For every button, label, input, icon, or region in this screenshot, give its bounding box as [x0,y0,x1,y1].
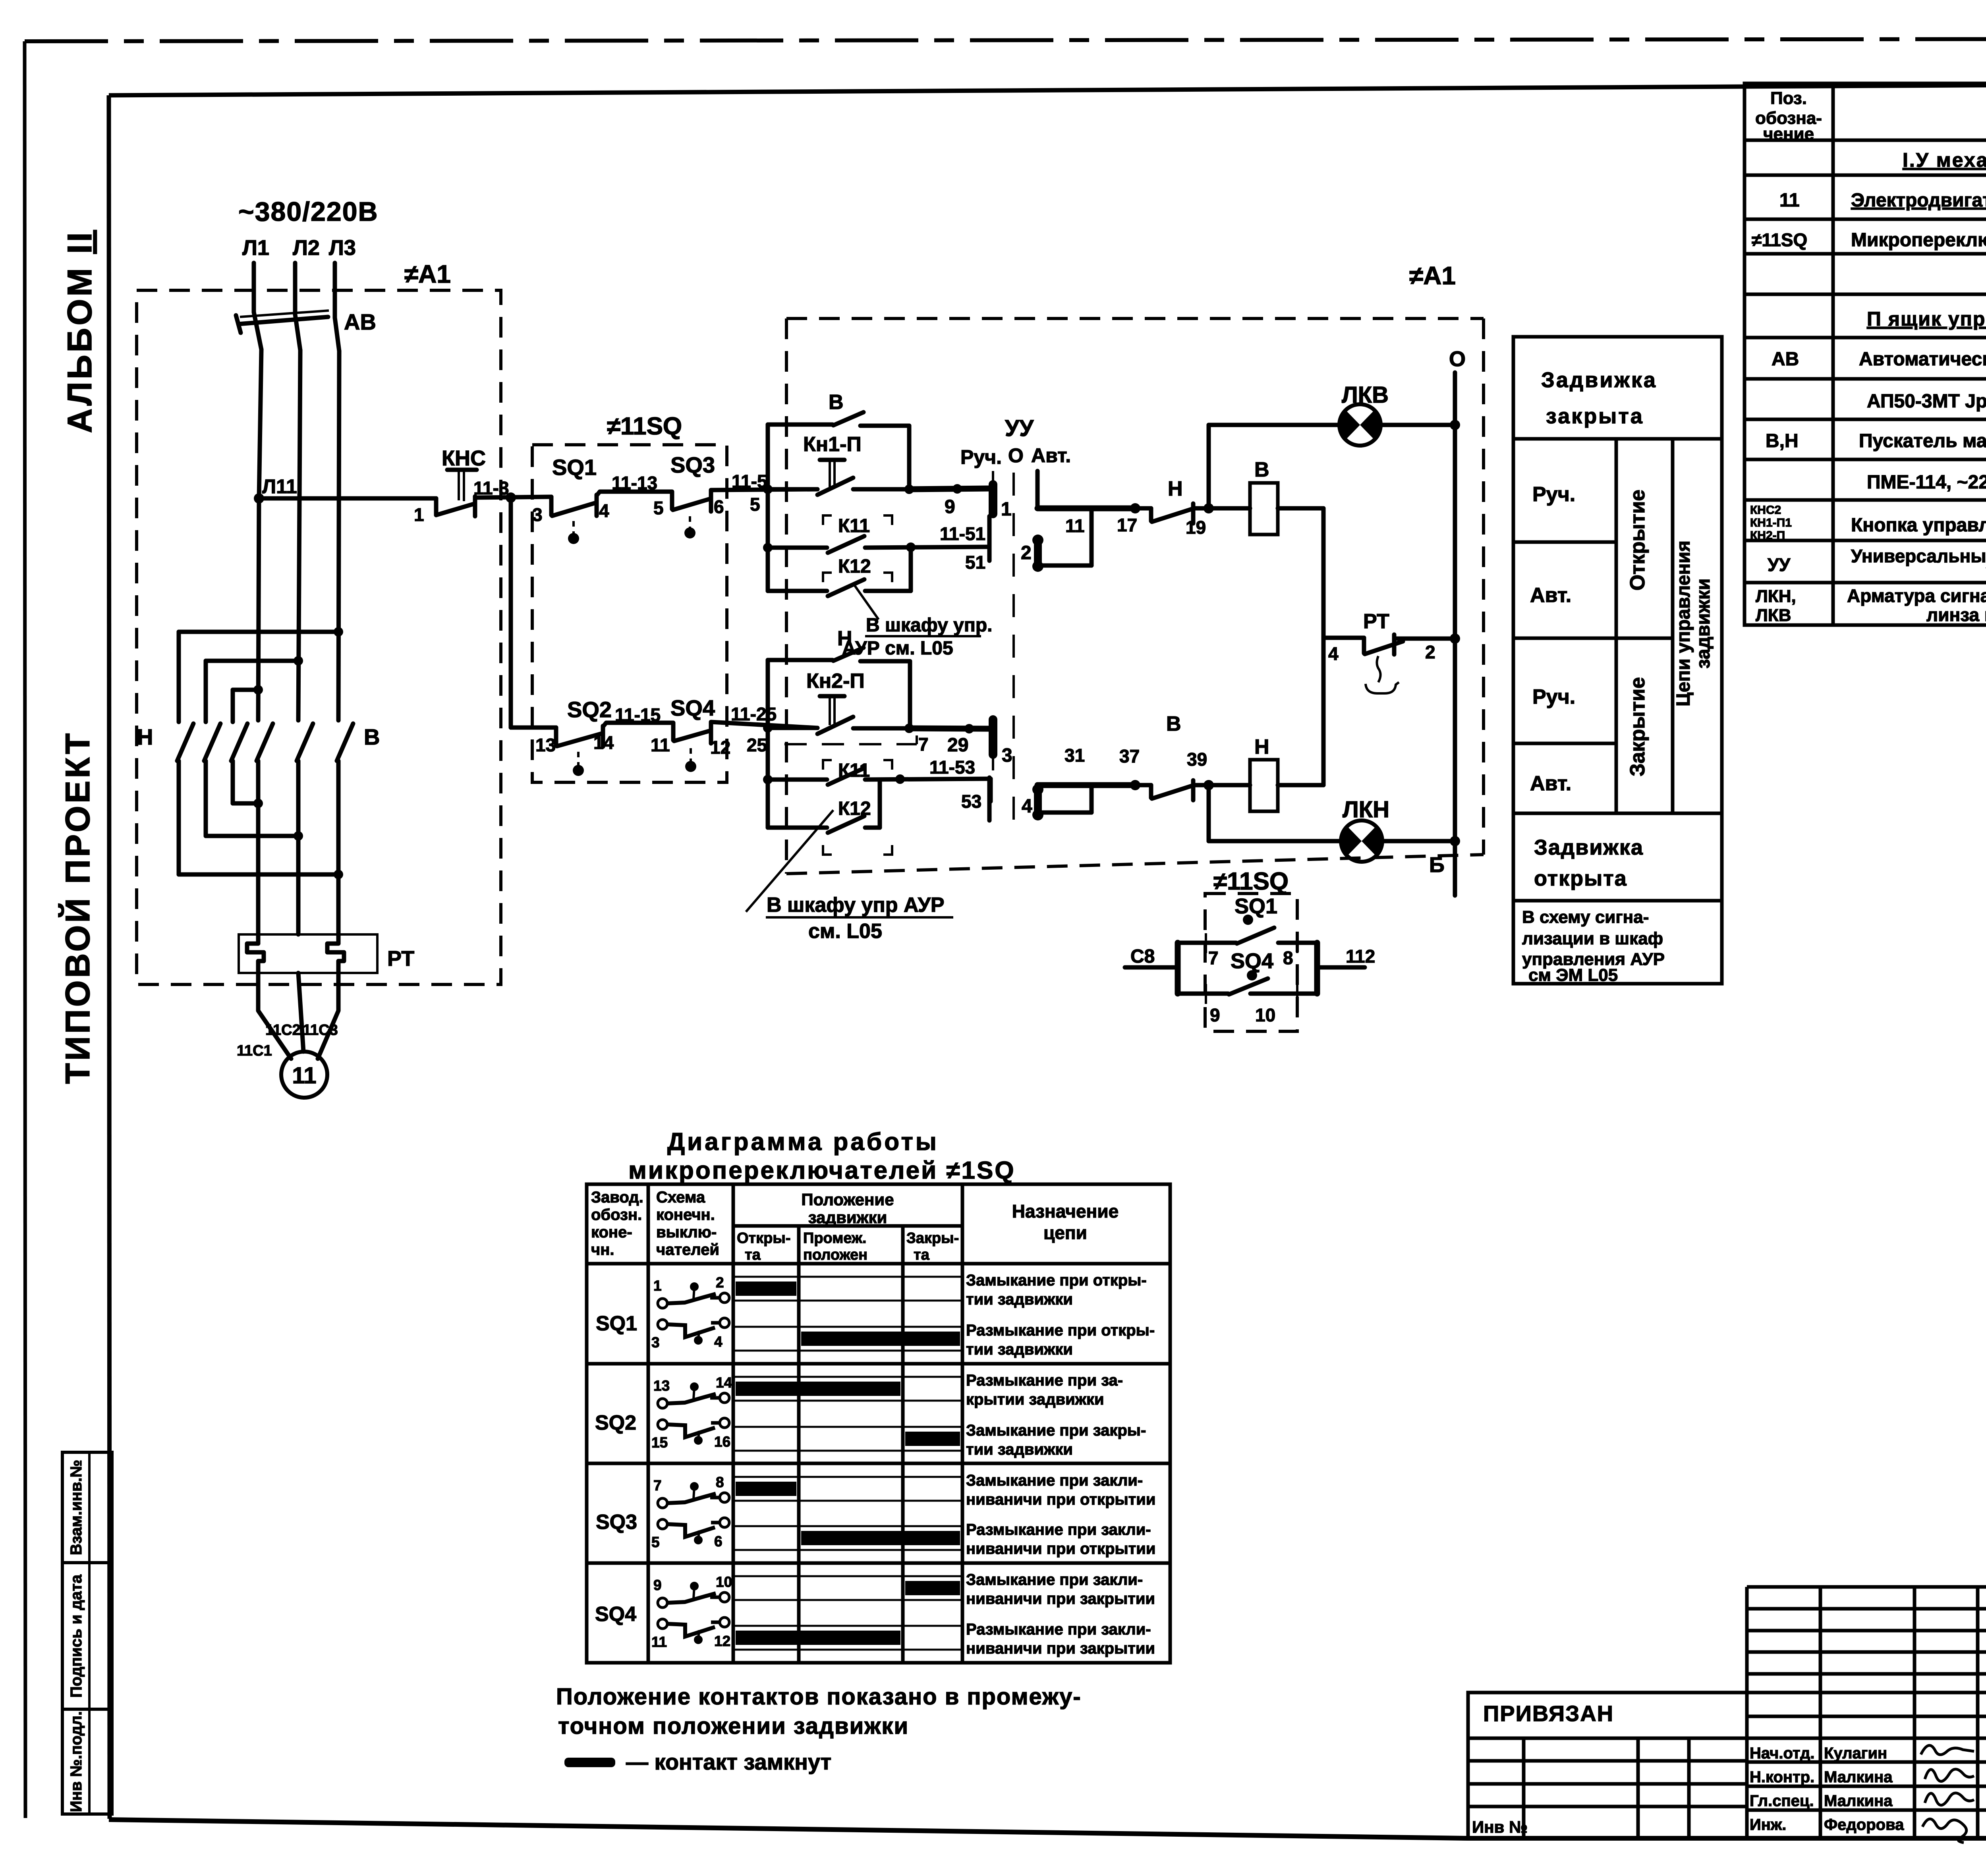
svg-text:37: 37 [1119,746,1140,766]
svg-text:SQ3: SQ3 [596,1511,637,1534]
УУ line Авт upper [1037,471,1140,513]
svg-text:тии задвижки: тии задвижки [966,1291,1073,1308]
svg-text:КНС2: КНС2 [1750,504,1781,517]
РТ release hook [1366,656,1399,693]
margin box Подпись и дата [62,1563,112,1709]
column dividers [1616,439,1673,813]
svg-text:12: 12 [714,1633,730,1649]
diagram column lines [648,1184,962,1663]
svg-text:11: 11 [1065,515,1085,536]
УУ contact bar 3 [993,720,1012,770]
motor 11 [281,1052,327,1098]
svg-text:≠А1: ≠А1 [404,260,451,288]
SQ2 contact sketch top [653,1374,732,1408]
wire SQ1 to SQ3 raised [597,492,672,509]
svg-text:11С2: 11С2 [265,1022,301,1038]
phase stub Л3 [333,263,337,318]
svg-text:Арматура сигнальная АЕ3211У: Арматура сигнальная АЕ3211У3 [1847,585,1986,606]
stop button КНС [436,470,477,516]
border dash-dot top line [25,39,1986,41]
svg-text:4: 4 [1022,796,1032,817]
limit switch SQ3 [673,491,711,538]
cell Авт close [1530,772,1571,795]
svg-text:Б: Б [1429,853,1445,877]
svg-text:Н: Н [1168,477,1183,500]
svg-text:10: 10 [1255,1005,1275,1025]
svg-text:Схема: Схема [656,1189,705,1206]
SQ3 contact sketch bottom [651,1518,729,1550]
wire 2 to Н contact row [1038,508,1092,566]
parts column lines [1833,83,1986,625]
svg-text:РТ: РТ [1363,610,1389,633]
circuit purpose text row 3 [966,1372,1123,1408]
svg-text:К11: К11 [838,760,870,781]
svg-text:SQ1: SQ1 [596,1312,637,1335]
svg-text:2: 2 [1021,542,1032,564]
cell Авт open [1513,584,1673,638]
svg-text:ЛКВ: ЛКВ [1756,606,1791,625]
button КН1-П contact [768,478,914,495]
svg-text:≠11SQ: ≠11SQ [1752,230,1807,250]
header Назначение цепи [1012,1201,1119,1243]
svg-text:см. L05: см. L05 [808,920,882,943]
margin box Инв №.подл. [62,1709,112,1814]
svg-text:открыта: открыта [1534,867,1627,890]
svg-text:ниваничи при закрытии: ниваничи при закрытии [966,1640,1155,1657]
svg-text:Малкина: Малкина [1824,1768,1893,1786]
svg-text:Нач.отд.: Нач.отд. [1750,1745,1814,1762]
svg-text:11: 11 [292,1063,316,1089]
coils common vertical [1321,508,1326,785]
svg-text:≠11SQ: ≠11SQ [1213,868,1289,895]
svg-text:Взам.инв.№: Взам.инв.№ [68,1460,85,1555]
svg-text:К11: К11 [838,515,870,537]
legend closed contact [564,1749,831,1774]
svg-text:16: 16 [714,1434,730,1450]
thermal contact РТ [1323,633,1460,654]
svg-text:Подпись и дата: Подпись и дата [68,1574,85,1698]
svg-text:АЛЬБОМ II: АЛЬБОМ II [61,230,99,433]
row арматура сигнальная [1756,585,1986,625]
SQ3 contact sketch top [653,1474,729,1508]
svg-text:Кн1-П: Кн1-П [803,433,862,456]
svg-text:Замыкание при закры-: Замыкание при закры- [966,1422,1146,1439]
svg-text:2: 2 [1425,642,1435,662]
motor leads [258,973,338,1059]
svg-text:12: 12 [710,737,730,758]
button КН2-П contact [768,717,914,734]
circuit breaker АВ poles [236,311,339,351]
circuit purpose text row 4 [966,1422,1146,1458]
svg-text:положен: положен [803,1247,867,1263]
УУ line Авт lower [1037,780,1140,790]
svg-text:РТ: РТ [387,947,414,971]
thermal relay РТ box [239,934,377,973]
svg-text:Кнопка управления КЕ 011У3: Кнопка управления КЕ 011У3 [1851,515,1986,536]
contact state strip row 5 [733,1477,962,1501]
svg-text:І.У механизма: І.У механизма [1903,149,1986,171]
circuit purpose text row 1 [966,1272,1147,1308]
svg-text:Автоматический выключатель: Автоматический выключатель [1859,349,1986,370]
diagram header lines [587,1226,1170,1264]
wire to УУ contact 3 [909,724,991,733]
svg-text:Кн2-П: Кн2-П [806,670,865,693]
svg-text:АВ: АВ [1772,349,1799,370]
svg-text:SQ1: SQ1 [1234,894,1277,918]
svg-text:11: 11 [651,1634,667,1650]
svg-text:конечн.: конечн. [656,1206,715,1224]
svg-text:П ящик управления ЯУ11 (ЯУ541: П ящик управления ЯУ11 (ЯУ5413-03 А 2В) [1867,308,1986,330]
valve state table frame [1513,337,1722,984]
svg-text:ниваничи при открытии: ниваничи при открытии [966,1491,1155,1508]
lamp ЛКВ branch [1209,420,1460,508]
svg-text:Замыкание при закли-: Замыкание при закли- [966,1571,1143,1588]
row АВ автоматический выключатель [1772,349,1986,370]
circuit purpose text row 6 [966,1521,1155,1558]
svg-text:Задвижка: Задвижка [1541,368,1657,392]
svg-text:7: 7 [653,1477,662,1494]
svg-text:Н: Н [1254,735,1269,759]
svg-text:чн.: чн. [591,1241,614,1258]
svg-text:Микропереключатель: Микропереключатель [1851,230,1986,251]
row ПМЕ-114 [1867,472,1986,493]
svg-text:Положение контактов показа: Положение контактов показано в промежу- [556,1684,1082,1710]
lamp ЛКН [1341,820,1382,862]
header cell Задвижка закрыта [1513,368,1722,439]
SQ4 contact sketch top [653,1574,732,1608]
svg-text:В схему сигна-: В схему сигна- [1522,907,1649,927]
contact state strip row 4 [733,1427,962,1451]
note В ШКАФУ УПР АУР lower [746,810,953,943]
svg-text:В: В [364,724,380,749]
svg-text:УУ: УУ [1005,415,1034,441]
header Положение задвижки [801,1190,894,1227]
svg-text:В: В [1254,458,1269,481]
interlock contact Н open-circuit [1135,503,1214,523]
wire Л11 to КНС [259,496,436,501]
svg-text:Поз.: Поз. [1770,89,1807,108]
svg-text:В шкафу упр.: В шкафу упр. [866,615,992,636]
header Завод обозн конечн [591,1189,643,1258]
row ВН пускатель [1766,430,1986,452]
svg-text:SQ4: SQ4 [1231,949,1273,973]
svg-text:14: 14 [593,732,614,753]
svg-text:Назначение: Назначение [1012,1201,1119,1222]
svg-text:АВ: АВ [344,309,376,334]
svg-text:14: 14 [716,1374,732,1391]
header Поз обозначение [1755,89,1822,144]
svg-text:Закрытие: Закрытие [1626,677,1649,776]
limit switch SQ2 [556,726,603,776]
contact state strip row 7 [733,1576,962,1600]
cell Руч close [1513,685,1616,743]
svg-text:7: 7 [1208,948,1219,968]
svg-text:Л1: Л1 [242,236,269,260]
svg-text:чателей: чателей [656,1241,719,1258]
svg-text:цепи: цепи [1043,1222,1087,1243]
seal-in contact Н [768,648,910,728]
junction column upper group [763,425,773,591]
reversing loops bottom wires [179,799,343,879]
seal-in contact В [768,412,909,489]
phase wire Л3 vertical [338,351,339,720]
svg-text:SQ4: SQ4 [595,1603,636,1626]
contactor coil В [1209,483,1323,535]
svg-text:Откры-: Откры- [737,1230,791,1247]
SQ4 contact 9-10 [1178,979,1317,1004]
SQ4 contact sketch bottom [651,1617,730,1650]
svg-text:≠11SQ: ≠11SQ [607,413,682,440]
svg-text:19: 19 [1186,517,1206,538]
svg-text:В: В [829,391,844,414]
svg-text:11-53: 11-53 [929,757,975,778]
circuit purpose text row 7 [966,1571,1155,1608]
branch tap to closing row [506,492,556,728]
svg-text:39: 39 [1187,749,1207,770]
circuit purpose text row 5 [966,1472,1155,1508]
SQ2 contact sketch bottom [651,1418,730,1451]
svg-text:Цепи управления: Цепи управления [1673,540,1694,706]
diagram group row lines [587,1364,1170,1563]
УУ position dashed line О [1012,473,1015,832]
staff row Н.контр [1750,1768,1974,1786]
svg-text:Инв №.подл.: Инв №.подл. [68,1711,85,1812]
svg-text:Л2: Л2 [293,236,320,260]
SQ1 contact 7-8 [1178,928,1317,953]
contact state strip row 6 [733,1526,962,1550]
svg-text:АП50-3МТ Јрасц.· 1,6А: АП50-3МТ Јрасц.· 1,6А [1867,391,1986,412]
cell Руч open [1513,483,1616,542]
svg-text:Кулагин: Кулагин [1824,1745,1887,1762]
parallel block right bus [1314,943,1320,994]
SQ1 actuator dot [1243,915,1253,925]
contact К12 upper loop [768,548,911,596]
wire 112 [1317,946,1375,967]
svg-text:29: 29 [947,735,968,756]
wire to УУ contact 1 [909,484,990,494]
svg-text:8: 8 [1283,948,1293,968]
dashed enclosure A1 left (motor cabinet) [137,290,501,984]
svg-text:SQ3: SQ3 [670,452,715,477]
svg-text:Л3: Л3 [329,236,356,260]
dashed enclosure А1 control box [786,318,1484,874]
svg-text:SQ2: SQ2 [567,697,612,722]
phase stub Л1 [252,263,256,312]
lamp ЛКН branch [1209,785,1460,846]
phase stub Л2 [293,263,298,315]
svg-text:11С3: 11С3 [303,1022,338,1038]
svg-text:Замыкание при откры-: Замыкание при откры- [966,1272,1147,1289]
svg-text:Авт.: Авт. [1530,584,1571,607]
svg-text:10: 10 [716,1574,732,1590]
phase verticals below contacts [258,761,338,934]
svg-text:Размыкание при за-: Размыкание при за- [966,1372,1123,1389]
svg-text:К12: К12 [838,556,871,577]
svg-text:9: 9 [1210,1005,1220,1025]
circuit purpose text row 8 [966,1621,1155,1657]
svg-text:Н.контр.: Н.контр. [1750,1768,1814,1786]
subheader Закрыта [906,1230,959,1263]
svg-text:Закры-: Закры- [906,1230,959,1247]
svg-text:микропереключателей ≠1SQ: микропереключателей ≠1SQ [628,1157,1016,1184]
svg-text:ЛКН,: ЛКН, [1756,587,1796,606]
terminal bar line 53 [987,778,992,820]
dashed enclosure 11SQ upper [532,445,727,782]
contact К11 lower [768,760,991,801]
svg-text:крытии задвижки: крытии задвижки [966,1391,1104,1408]
svg-text:9: 9 [945,496,955,517]
svg-text:О: О [1449,347,1466,371]
bottom border line [109,1820,1986,1838]
svg-text:Руч.: Руч. [960,446,1002,468]
node Л11 [254,493,264,504]
svg-text:6: 6 [714,496,724,517]
rotated label Цепи управления задвижки [1673,540,1714,706]
svg-text:— контакт замкнут: — контакт замкнут [626,1749,831,1774]
РТ heater element phase1 [247,934,264,973]
left outer border line [25,41,25,1818]
svg-text:9: 9 [653,1577,662,1593]
margin box Взам.инв.№ [62,1452,112,1563]
junction column lower group [763,660,773,828]
svg-text:4: 4 [1328,643,1339,664]
phase wire Л2 vertical [298,350,300,720]
svg-text:Авт.: Авт. [1031,444,1071,467]
limit switch SQ4 [674,723,711,772]
svg-text:ПМЕ-114, ~220в ,Јн.э.= 0,8А: ПМЕ-114, ~220в ,Јн.э.= 0,8А [1867,472,1986,493]
УУ contact bar 4 [1022,784,1043,820]
push button КН1-П actuator [820,460,844,487]
svg-text:31: 31 [1064,745,1085,766]
svg-text:закрыта: закрыта [1546,404,1644,428]
svg-text:5: 5 [653,498,664,518]
svg-text:тии задвижки: тии задвижки [966,1441,1073,1458]
svg-text:11-51: 11-51 [940,523,985,544]
terminal bar line 51 [987,516,992,561]
wire SQ4 to button КН2-П [711,722,817,728]
svg-text:чение: чение [1763,124,1814,144]
svg-text:см ЭМ L05: см ЭМ L05 [1528,965,1618,985]
svg-text:4: 4 [714,1334,723,1350]
central staff grid [1747,1587,1986,1838]
svg-text:Задвижка: Задвижка [1534,836,1644,859]
note В шкафу упр АУР upper [842,585,992,659]
svg-text:О: О [1008,444,1024,467]
svg-text:11: 11 [1779,190,1800,211]
svg-text:КН2-П: КН2-П [1750,529,1785,542]
привязан box [1468,1693,1747,1838]
svg-text:та: та [745,1247,761,1263]
push button КН2-П actuator [820,696,844,725]
main frame left line [109,95,110,1819]
svg-text:SQ4: SQ4 [670,695,715,720]
svg-text:SQ2: SQ2 [595,1411,636,1434]
contactor В contacts [257,724,353,761]
svg-text:Федорова: Федорова [1824,1816,1904,1834]
svg-text:51: 51 [965,552,985,573]
svg-text:13: 13 [535,735,556,755]
svg-text:задвижки: задвижки [1693,579,1714,669]
svg-text:17: 17 [1117,515,1137,535]
header Схема конечн выключателей [656,1189,719,1258]
contact state strip row 3 [733,1377,962,1401]
circuit purpose text row 2 [966,1322,1155,1358]
svg-text:ЛКВ: ЛКВ [1342,382,1389,408]
wire КНС to SQ1 [475,497,551,498]
contact state strip row 2 [733,1327,962,1351]
svg-text:25: 25 [747,735,767,755]
svg-text:Инж.: Инж. [1750,1816,1786,1834]
wire SQ2 to SQ4 raised [603,723,673,740]
contact state strip row 1 [733,1277,962,1301]
wire С8 [1125,946,1178,967]
svg-text:коне-: коне- [591,1224,632,1241]
row Микропереключатель [1752,224,1986,281]
svg-text:~380/220В: ~380/220В [238,197,379,227]
УУ contact bar 1 [993,471,1012,520]
svg-text:Л11: Л11 [262,475,297,498]
svg-text:ТИПОВОЙ ПРОЕКТ: ТИПОВОЙ ПРОЕКТ [58,731,97,1084]
SQ1 contact sketch top [653,1274,729,1308]
svg-text:2: 2 [716,1274,724,1291]
svg-text:5: 5 [651,1534,660,1550]
svg-text:Промеж.: Промеж. [803,1230,866,1247]
svg-text:точном положении задвижки: точном положении задвижки [558,1713,909,1739]
svg-text:112: 112 [1346,946,1375,967]
svg-text:Открытие: Открытие [1626,490,1649,591]
svg-text:обозн.: обозн. [591,1206,642,1224]
row В схему сигнализации [1513,901,1722,985]
svg-text:Руч.: Руч. [1532,483,1575,506]
svg-text:Пускатель магнитный: Пускатель магнитный [1859,430,1986,452]
svg-text:К12: К12 [838,798,871,819]
contact state strip row 8 [733,1626,962,1650]
svg-text:задвижки: задвижки [808,1208,887,1227]
reversing loop verticals [179,632,233,874]
contact К12 lower loop [768,780,892,855]
wire 4 to В contact row [1038,785,1092,813]
staff row Гл.спец [1750,1792,1974,1810]
svg-text:линза красная: линза красная [1926,604,1986,625]
svg-text:ПРИВЯЗАН: ПРИВЯЗАН [1483,1701,1614,1726]
row универсальный переключатель [1768,546,1986,585]
svg-text:Размыкание при откры-: Размыкание при откры- [966,1322,1155,1339]
limit switch SQ1 [551,495,597,544]
svg-text:В,Н: В,Н [1766,430,1799,452]
svg-text:УУ: УУ [1768,554,1791,575]
bus О vertical [1453,372,1457,896]
svg-text:1: 1 [653,1278,662,1294]
svg-text:Электродвигатель 4АА56В4: Электродвигатель 4АА56В4 [1851,190,1986,211]
SQ4 actuator dot [1247,970,1257,980]
svg-text:8: 8 [716,1474,724,1490]
svg-text:В: В [1166,712,1181,735]
svg-text:ниваничи при закрытии: ниваничи при закрытии [966,1590,1155,1608]
wire SQ3 to button КН1-П [711,489,817,490]
svg-text:ниваничи при открытии: ниваничи при открытии [966,1540,1155,1558]
row АП50-3МТ [1867,391,1986,412]
svg-text:лизации в шкаф: лизации в шкаф [1522,929,1663,948]
svg-text:53: 53 [961,791,981,812]
svg-text:Завод.: Завод. [591,1189,643,1206]
svg-text:та: та [914,1247,930,1263]
svg-text:Диаграмма работы: Диаграмма работы [667,1128,939,1156]
svg-text:Размыкание при закли-: Размыкание при закли- [966,1621,1151,1638]
parts row lines [1745,140,1986,583]
svg-text:тии задвижки: тии задвижки [966,1341,1073,1358]
lamp ЛКВ [1339,404,1381,446]
row кнопка управления [1750,504,1986,542]
